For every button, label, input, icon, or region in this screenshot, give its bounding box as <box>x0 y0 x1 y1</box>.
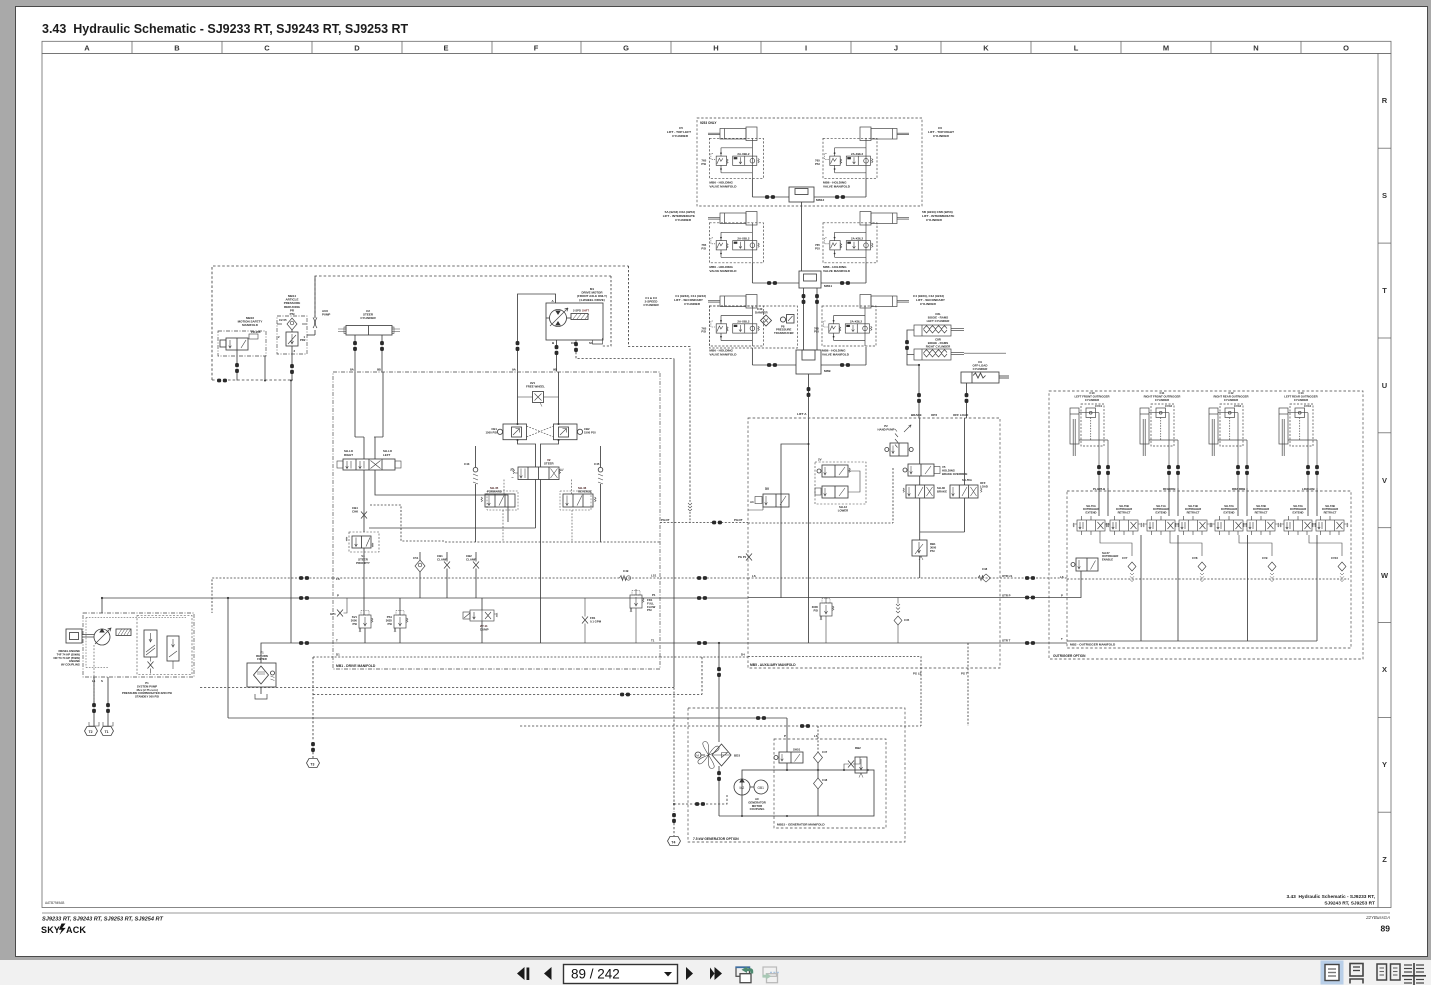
svg-text:O: O <box>1343 44 1349 53</box>
cylinder C10 left front outrigger <box>1070 391 1110 491</box>
line LS dashed <box>333 577 660 579</box>
svg-text:LOAD: LOAD <box>980 484 988 488</box>
svg-text:CYLINDER: CYLINDER <box>1085 398 1099 402</box>
svg-text:BRAKE: BRAKE <box>911 413 922 417</box>
svg-text:DAMPER: DAMPER <box>755 310 768 314</box>
check C49 <box>620 569 631 581</box>
line P MB5 <box>748 597 1000 599</box>
valve 5V <box>748 487 789 510</box>
wire MB14 drain down <box>290 381 292 644</box>
compensator lever <box>116 629 131 636</box>
svg-text:OTR P: OTR P <box>1002 594 1011 598</box>
port PG P1 <box>738 554 752 561</box>
svg-text:A: A <box>552 299 555 303</box>
previous view button <box>735 967 753 983</box>
svg-text:LS: LS <box>814 734 818 738</box>
svg-text:2: 2 <box>278 335 280 339</box>
last page button <box>710 968 715 980</box>
svg-text:22YBussGA: 22YBussGA <box>1365 915 1390 920</box>
check C45 <box>594 446 603 542</box>
fan and cooler BD3 <box>695 742 740 769</box>
compensator valve V1 <box>144 630 157 657</box>
right ports <box>1002 574 1012 643</box>
footer <box>41 894 1390 935</box>
valve V2 steer <box>510 458 564 480</box>
outrigger option dashed box <box>1049 391 1363 659</box>
manifold MB5 auxiliary (dashed box) <box>748 418 1000 668</box>
manifold MB1 drive (dashed box) <box>333 372 660 669</box>
check C47 <box>814 750 828 771</box>
schematic content group <box>53 118 1363 846</box>
svg-text:RIGHT: RIGHT <box>344 453 353 457</box>
svg-text:9B: 9B <box>553 368 558 372</box>
wire T cooler feed x719 <box>718 643 720 667</box>
valve CB1 counterbalance <box>485 423 526 441</box>
svg-text:D1: D1 <box>336 653 340 657</box>
svg-text:RRA RRB: RRA RRB <box>1232 487 1245 491</box>
valve SH-45 forward <box>481 480 518 543</box>
svg-text:BRAKE: BRAKE <box>937 489 947 493</box>
svg-text:SHFT: SHFT <box>582 309 589 313</box>
svg-text:RETRACT: RETRACT <box>1255 510 1268 514</box>
svg-text:CYLINDER: CYLINDER <box>672 134 689 138</box>
svg-text:T: T <box>1382 286 1387 295</box>
check CV8 <box>1192 556 1206 582</box>
svg-text:W/ COUPLING: W/ COUPLING <box>61 663 80 667</box>
svg-text:Z: Z <box>1382 855 1387 864</box>
svg-text:MANIFOLD: MANIFOLD <box>242 323 259 327</box>
svg-text:W: W <box>1381 571 1389 580</box>
holding valve manifold MB4 (wide, with damper) <box>701 306 797 357</box>
line T3 return dashed <box>312 657 314 741</box>
cylinder C5 <box>708 127 757 141</box>
page number combobox <box>564 965 678 984</box>
svg-text:9253 ONLY: 9253 ONLY <box>700 121 717 125</box>
svg-text:PSI: PSI <box>647 608 652 612</box>
wire tank drop x674 case drain <box>673 359 675 688</box>
manifold MB14 pressure reducing <box>277 276 330 643</box>
holding valve manifold MB6 <box>701 138 763 178</box>
relief SV1 <box>351 611 373 644</box>
svg-text:D: D <box>354 44 360 53</box>
svg-text:STEER: STEER <box>544 462 555 466</box>
svg-text:T: T <box>336 639 338 643</box>
svg-text:LS1: LS1 <box>651 574 657 578</box>
wire 8A/8B U-tube <box>355 372 383 459</box>
svg-text:CYLINDER: CYLINDER <box>360 316 376 320</box>
svg-text:MB1 - DRIVE MANIFOLD: MB1 - DRIVE MANIFOLD <box>336 664 376 668</box>
holding valve manifold MB8 <box>814 306 876 346</box>
cylinder C4 secondary <box>860 295 909 309</box>
line T outrigger <box>1067 640 1317 642</box>
wire V2 trunks <box>536 480 541 644</box>
svg-text:CLAMP: CLAMP <box>466 558 476 562</box>
svg-text:OP3: OP3 <box>931 413 937 417</box>
port GP1 <box>330 598 347 617</box>
svg-text:ENABLE: ENABLE <box>1102 557 1113 561</box>
svg-text:CV10: CV10 <box>1331 556 1338 560</box>
transducer P8 <box>774 315 794 335</box>
wire case drains to tanks <box>93 645 95 703</box>
svg-text:ACK: ACK <box>66 925 86 935</box>
svg-text:CYLINDER: CYLINDER <box>920 302 937 306</box>
cylinder C2 steer <box>338 309 400 372</box>
cylinder C13 left rear outrigger <box>1279 391 1319 491</box>
svg-text:C48: C48 <box>982 567 988 571</box>
svg-text:CLAMP: CLAMP <box>437 558 447 562</box>
valve SH-72A <box>1211 504 1247 535</box>
valve CB2 counterbalance <box>554 423 596 441</box>
hand pump P2 <box>878 424 914 456</box>
valve SH-46 reverse <box>560 480 596 543</box>
svg-text:5V: 5V <box>765 487 770 491</box>
motor M2 / generator <box>734 778 768 811</box>
svg-text:SH51: SH51 <box>793 748 801 752</box>
svg-text:E: E <box>443 44 448 53</box>
check CV10 <box>1331 556 1346 582</box>
svg-text:CYLINDER: CYLINDER <box>675 218 692 222</box>
next page button <box>686 967 693 980</box>
inner gallery box <box>742 770 874 816</box>
svg-text:LS: LS <box>752 574 756 578</box>
manifold MB11 <box>752 263 866 288</box>
svg-text:C47: C47 <box>822 750 828 754</box>
line LS link <box>660 577 748 579</box>
svg-text:CYLINDER: CYLINDER <box>1224 398 1238 402</box>
svg-text:PG P1: PG P1 <box>738 555 747 559</box>
svg-text:LS: LS <box>1060 575 1064 579</box>
svg-text:CV9: CV9 <box>1262 556 1268 560</box>
svg-text:MB9: MB9 <box>824 369 831 373</box>
svg-text:N: N <box>1253 44 1258 53</box>
svg-text:8A: 8A <box>350 368 355 372</box>
svg-text:EXTEND: EXTEND <box>1293 510 1304 514</box>
svg-text:J: J <box>894 44 898 53</box>
wire LS into manifold <box>817 726 819 752</box>
svg-text:2V: 2V <box>818 458 822 462</box>
engine E1 <box>66 629 82 643</box>
valve SH-71B <box>1175 504 1211 535</box>
label diesel engine <box>53 649 80 667</box>
svg-text:CV8: CV8 <box>1192 556 1198 560</box>
manifold MB15 dashed box <box>774 739 886 828</box>
line P solid <box>333 597 660 599</box>
generator option dashed box <box>688 708 905 842</box>
svg-text:RETRACT: RETRACT <box>1118 510 1131 514</box>
svg-text:REVERSE: REVERSE <box>578 490 592 494</box>
svg-text:PSI: PSI <box>930 549 935 553</box>
svg-text:CYLINDER: CYLINDER <box>973 367 989 371</box>
pump caption <box>122 681 172 699</box>
svg-text:PUMP: PUMP <box>322 312 330 316</box>
line D4 link <box>660 656 748 658</box>
cylinder C1 secondary <box>708 295 757 309</box>
line LS to pump <box>212 578 333 613</box>
line D4 MB5 dashed <box>748 657 921 727</box>
svg-text:T1: T1 <box>105 730 109 734</box>
wire dashed corridor y542 <box>445 541 660 543</box>
prev page button <box>544 967 552 980</box>
manifold MB2 dashed box <box>1067 491 1351 648</box>
valve SH-70A <box>1073 504 1109 535</box>
valve SH-72B <box>1243 504 1279 535</box>
wire aux vertical x228 <box>227 598 229 718</box>
line T solid <box>333 642 660 644</box>
wire P into manifold <box>786 718 788 752</box>
motor M1 <box>546 299 603 345</box>
wire T4 spur <box>674 795 727 804</box>
svg-text:SJ9233 RT, SJ9243 RT, SJ9253 R: SJ9233 RT, SJ9243 RT, SJ9253 RT, SJ9254 … <box>42 917 163 923</box>
svg-text:1500 PSI: 1500 PSI <box>485 430 497 434</box>
relief SV2 <box>812 598 834 644</box>
wire CB to V2 <box>518 440 559 467</box>
check C46 <box>894 598 910 644</box>
svg-text:CYLINDER: CYLINDER <box>684 302 701 306</box>
label C5A <box>663 210 695 222</box>
manifold MB9 <box>752 347 866 374</box>
svg-text:SJ9243 RT, SJ9253 RT: SJ9243 RT, SJ9253 RT <box>1324 901 1375 907</box>
svg-text:3.43 Hydraulic Schematic - SJ: 3.43 Hydraulic Schematic - SJ9233 RT, SJ… <box>42 22 409 36</box>
svg-text:M: M <box>696 754 699 758</box>
svg-text:R: R <box>1382 96 1388 105</box>
label C6A <box>922 210 954 222</box>
relief FD1 <box>630 589 656 643</box>
svg-text:SH-55A: SH-55A <box>962 478 972 482</box>
svg-text:PSI: PSI <box>352 622 357 626</box>
valve SH-55A off-load <box>950 478 988 498</box>
cylinder C9 off-load <box>961 360 1009 418</box>
svg-text:A: A <box>84 44 90 53</box>
svg-text:CYLINDER: CYLINDER <box>643 303 659 307</box>
svg-text:P: P <box>784 734 786 738</box>
line D dashed <box>313 656 660 658</box>
wire port1 to aux line <box>307 334 315 336</box>
valve SH-LO <box>337 449 401 470</box>
wire pilot dashed MB5 <box>748 468 893 523</box>
valve V5 brake override <box>903 464 967 476</box>
pump P1 dashed enclosure <box>83 613 194 677</box>
line P link <box>660 597 748 599</box>
check CV7 <box>1122 556 1136 582</box>
svg-text:CYLINDER: CYLINDER <box>933 134 950 138</box>
twin trunk wires row2-row3 <box>802 288 819 350</box>
wire fan down <box>718 766 720 771</box>
svg-text:LIFT A: LIFT A <box>797 412 807 416</box>
svg-text:Y: Y <box>1382 760 1387 769</box>
valve 2P-11 dump <box>463 598 498 643</box>
svg-text:1500 PSI: 1500 PSI <box>584 430 596 434</box>
cylinder C5A <box>708 212 757 226</box>
svg-text:B: B <box>552 341 555 345</box>
orifice CB5 <box>437 552 450 598</box>
svg-text:V: V <box>1382 476 1387 485</box>
line P main <box>102 597 333 599</box>
svg-text:7.5 kW GENERATOR OPTION: 7.5 kW GENERATOR OPTION <box>693 837 739 841</box>
valve SH-73B <box>1312 504 1348 535</box>
relief RB2 <box>843 746 867 778</box>
cylinder C8L bogie ram <box>914 312 964 336</box>
line PILOT link <box>660 522 748 524</box>
check C48b <box>814 770 828 816</box>
svg-text:EXTEND: EXTEND <box>1224 510 1235 514</box>
wire L1 dashed <box>212 266 629 380</box>
svg-text:P: P <box>1061 594 1063 598</box>
two page layout button <box>1377 964 1400 980</box>
line OTR LS link <box>1000 577 1067 579</box>
line T MB5 <box>748 642 1000 644</box>
single page layout button (selected) <box>1321 961 1344 985</box>
svg-text:MB12: MB12 <box>816 198 825 202</box>
wire D4 to BK dashed <box>313 657 702 695</box>
wire LS jogs from valves <box>1100 535 1342 556</box>
wire PG T <box>967 643 969 726</box>
line T to filter <box>261 643 333 663</box>
valve SH-73A <box>1280 504 1316 535</box>
svg-text:89: 89 <box>1381 924 1391 934</box>
svg-text:CYLINDER: CYLINDER <box>926 218 943 222</box>
label M1 drive motor <box>577 287 607 302</box>
wire B port to 9B <box>556 340 558 345</box>
next view button (disabled) <box>763 967 780 983</box>
valve SH-70B <box>1106 504 1142 535</box>
svg-text:RETRACT: RETRACT <box>1324 510 1337 514</box>
svg-text:CV7: CV7 <box>1122 556 1128 560</box>
wire LIFT A trunk <box>808 418 810 643</box>
manifold MB12 <box>752 178 866 202</box>
toolbar <box>0 960 1431 985</box>
check C48 <box>978 567 991 582</box>
svg-text:PSI: PSI <box>290 312 295 316</box>
svg-text:B: B <box>174 44 180 53</box>
wire crossover <box>527 426 554 437</box>
wire brake trunk <box>919 418 921 540</box>
svg-text:OFF LOAD: OFF LOAD <box>953 413 969 417</box>
svg-text:PR-206: PR-206 <box>251 330 261 334</box>
svg-text:0.1 GPM: 0.1 GPM <box>590 619 602 623</box>
line OTR T link <box>1000 642 1067 644</box>
svg-text:C48: C48 <box>822 778 828 782</box>
svg-text:W: W <box>561 468 564 472</box>
wire trunk row1-row2 <box>801 202 803 271</box>
svg-text:(4-WHEEL DRIVE): (4-WHEEL DRIVE) <box>579 298 604 302</box>
valve 2V lower cluster <box>815 458 866 513</box>
pump P1 circle <box>94 629 110 645</box>
cylinder C11 right front outrigger <box>1140 391 1180 491</box>
wire MB9 to LIFT A <box>797 374 810 418</box>
svg-text:OTR T: OTR T <box>1002 639 1011 643</box>
svg-text:M: M <box>1163 44 1169 53</box>
svg-text:RB2: RB2 <box>855 746 861 750</box>
wire A port to 9A <box>518 294 556 341</box>
svg-text:LEFT CYLINDER: LEFT CYLINDER <box>927 319 951 323</box>
svg-text:K: K <box>983 44 989 53</box>
line LS outrigger <box>1067 578 1349 580</box>
svg-text:C45: C45 <box>594 462 600 466</box>
svg-text:P: P <box>337 594 339 598</box>
label C4 <box>913 294 946 306</box>
damper C40 <box>755 307 772 326</box>
svg-text:PSI: PSI <box>813 608 818 612</box>
svg-text:P1: P1 <box>652 593 656 597</box>
svg-text:I: I <box>805 44 807 53</box>
svg-text:T4: T4 <box>671 840 675 844</box>
svg-text:X: X <box>1382 665 1387 674</box>
svg-text:C51: C51 <box>413 556 419 560</box>
svg-text:CHK: CHK <box>352 510 359 514</box>
label C5 <box>667 126 691 138</box>
label C1/C3 2-speed <box>643 296 659 307</box>
svg-text:FILTER: FILTER <box>257 657 267 661</box>
svg-text:T1: T1 <box>651 639 655 643</box>
svg-text:PRIORITY: PRIORITY <box>356 561 370 565</box>
label C6 <box>928 126 954 138</box>
valve SH-51 <box>774 748 803 772</box>
tank T3 <box>307 759 320 768</box>
wire T4 drop dashed <box>673 688 675 813</box>
wire pump outlet to P line <box>101 613 103 629</box>
svg-text:CYLINDER: CYLINDER <box>1294 398 1308 402</box>
svg-text:PILOT: PILOT <box>661 518 670 522</box>
svg-text:C45: C45 <box>904 618 910 622</box>
cylinder C12 right rear outrigger <box>1209 391 1249 491</box>
node junction <box>264 380 266 382</box>
svg-text:S: S <box>1382 191 1387 200</box>
wire dashed pilot <box>370 505 445 541</box>
svg-text:RETRACT: RETRACT <box>1187 510 1200 514</box>
svg-text:MB2 - OUTRIGGER MANIFOLD: MB2 - OUTRIGGER MANIFOLD <box>1070 643 1116 647</box>
continuous scroll layout button <box>1350 964 1363 984</box>
svg-text:RIGHT CYLINDER: RIGHT CYLINDER <box>926 345 951 349</box>
svg-text:LEFT: LEFT <box>383 453 390 457</box>
svg-text:HAND PUMP: HAND PUMP <box>878 427 895 431</box>
first page button <box>517 967 525 980</box>
svg-text:CYLINDER: CYLINDER <box>1155 398 1169 402</box>
relief RB1 <box>912 540 937 578</box>
cylinder C6 <box>860 127 909 141</box>
wire L2 dashed <box>315 276 611 318</box>
check CV9 <box>1262 556 1276 582</box>
svg-text:BRAKE OVERRIDE: BRAKE OVERRIDE <box>942 472 967 476</box>
svg-text:OTR LS: OTR LS <box>1002 574 1012 578</box>
svg-text:T3: T3 <box>310 762 314 766</box>
svg-text:DUMP: DUMP <box>480 628 489 632</box>
valve 9V1 free wheel <box>518 381 559 407</box>
svg-text:PG T: PG T <box>961 672 968 676</box>
svg-text:T2: T2 <box>89 730 93 734</box>
wire bottom-left dashed with coupler <box>212 379 293 381</box>
check C51 <box>413 552 425 598</box>
wire cylinder ports into manifold <box>1099 488 1317 516</box>
svg-text:MB5 - AUXILIARY MANIFOLD: MB5 - AUXILIARY MANIFOLD <box>750 663 796 667</box>
cylinder C8R bogie ram <box>914 338 1006 361</box>
line LS MB5 <box>748 577 1000 579</box>
svg-text:A3: A3 <box>750 500 754 504</box>
dashed enclosure 9253-only <box>697 118 922 206</box>
orifice FR1 <box>582 598 602 643</box>
tank T4 <box>668 837 681 846</box>
line OTR P link <box>1000 597 1067 599</box>
svg-text:PILOT: PILOT <box>734 518 743 522</box>
two page continuous layout button <box>1402 963 1426 985</box>
relief SV2 <box>386 598 408 643</box>
svg-text:C: C <box>264 44 270 53</box>
tank T2 <box>85 727 98 736</box>
svg-text:PSI: PSI <box>387 622 392 626</box>
wire 2-speed dashed drops <box>603 276 612 346</box>
svg-text:D4: D4 <box>741 653 745 657</box>
svg-text:S: S <box>101 679 103 683</box>
label C1 <box>674 294 706 306</box>
